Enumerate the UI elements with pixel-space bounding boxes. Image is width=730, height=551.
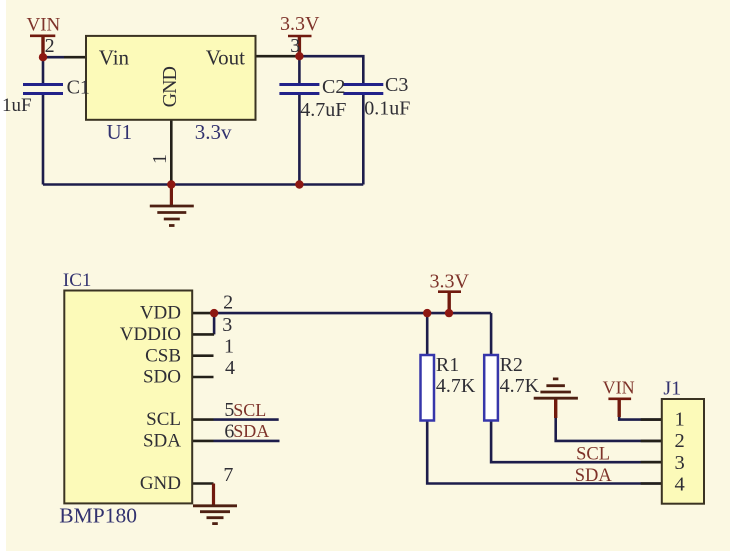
svg-text:U1: U1 (107, 120, 133, 144)
svg-text:3: 3 (290, 35, 300, 57)
svg-text:4: 4 (675, 474, 685, 496)
svg-text:IC1: IC1 (63, 270, 92, 291)
svg-text:SCL: SCL (576, 445, 610, 465)
svg-text:VDD: VDD (140, 303, 181, 324)
svg-text:Vout: Vout (206, 46, 245, 70)
svg-text:4: 4 (225, 357, 235, 379)
svg-text:3: 3 (675, 452, 685, 474)
svg-text:BMP180: BMP180 (59, 503, 137, 527)
svg-text:CSB: CSB (145, 345, 181, 366)
svg-text:4.7uF: 4.7uF (300, 99, 346, 121)
svg-text:C2: C2 (322, 76, 345, 98)
svg-text:4.7K: 4.7K (500, 375, 540, 397)
svg-text:SCL: SCL (233, 400, 266, 420)
svg-text:0.1uF: 0.1uF (364, 98, 410, 120)
svg-text:C3: C3 (385, 74, 408, 96)
svg-text:3: 3 (222, 314, 232, 336)
svg-text:R1: R1 (436, 354, 459, 376)
svg-text:Vin: Vin (99, 46, 130, 70)
svg-text:VIN: VIN (27, 15, 61, 36)
svg-text:GND: GND (159, 66, 181, 107)
svg-text:3.3V: 3.3V (430, 271, 470, 293)
svg-text:1: 1 (149, 154, 171, 164)
svg-text:SCL: SCL (146, 409, 181, 430)
svg-text:1: 1 (675, 408, 685, 430)
svg-text:4.7K: 4.7K (436, 375, 476, 397)
svg-text:R2: R2 (500, 354, 523, 376)
svg-text:SDA: SDA (143, 431, 181, 452)
svg-text:SDO: SDO (143, 367, 181, 388)
svg-text:2: 2 (223, 292, 233, 314)
svg-text:1: 1 (224, 336, 234, 358)
svg-text:2: 2 (675, 430, 685, 452)
svg-text:VDDIO: VDDIO (120, 324, 181, 345)
svg-text:3.3v: 3.3v (195, 120, 232, 144)
svg-text:1uF: 1uF (2, 95, 32, 116)
svg-text:C1: C1 (67, 77, 90, 99)
svg-text:7: 7 (223, 464, 233, 486)
svg-text:J1: J1 (663, 378, 681, 400)
svg-text:3.3V: 3.3V (280, 13, 320, 35)
svg-text:SDA: SDA (233, 421, 269, 441)
svg-text:VIN: VIN (603, 378, 635, 398)
svg-text:GND: GND (140, 473, 181, 494)
svg-text:2: 2 (45, 35, 55, 57)
svg-text:SDA: SDA (575, 466, 613, 486)
